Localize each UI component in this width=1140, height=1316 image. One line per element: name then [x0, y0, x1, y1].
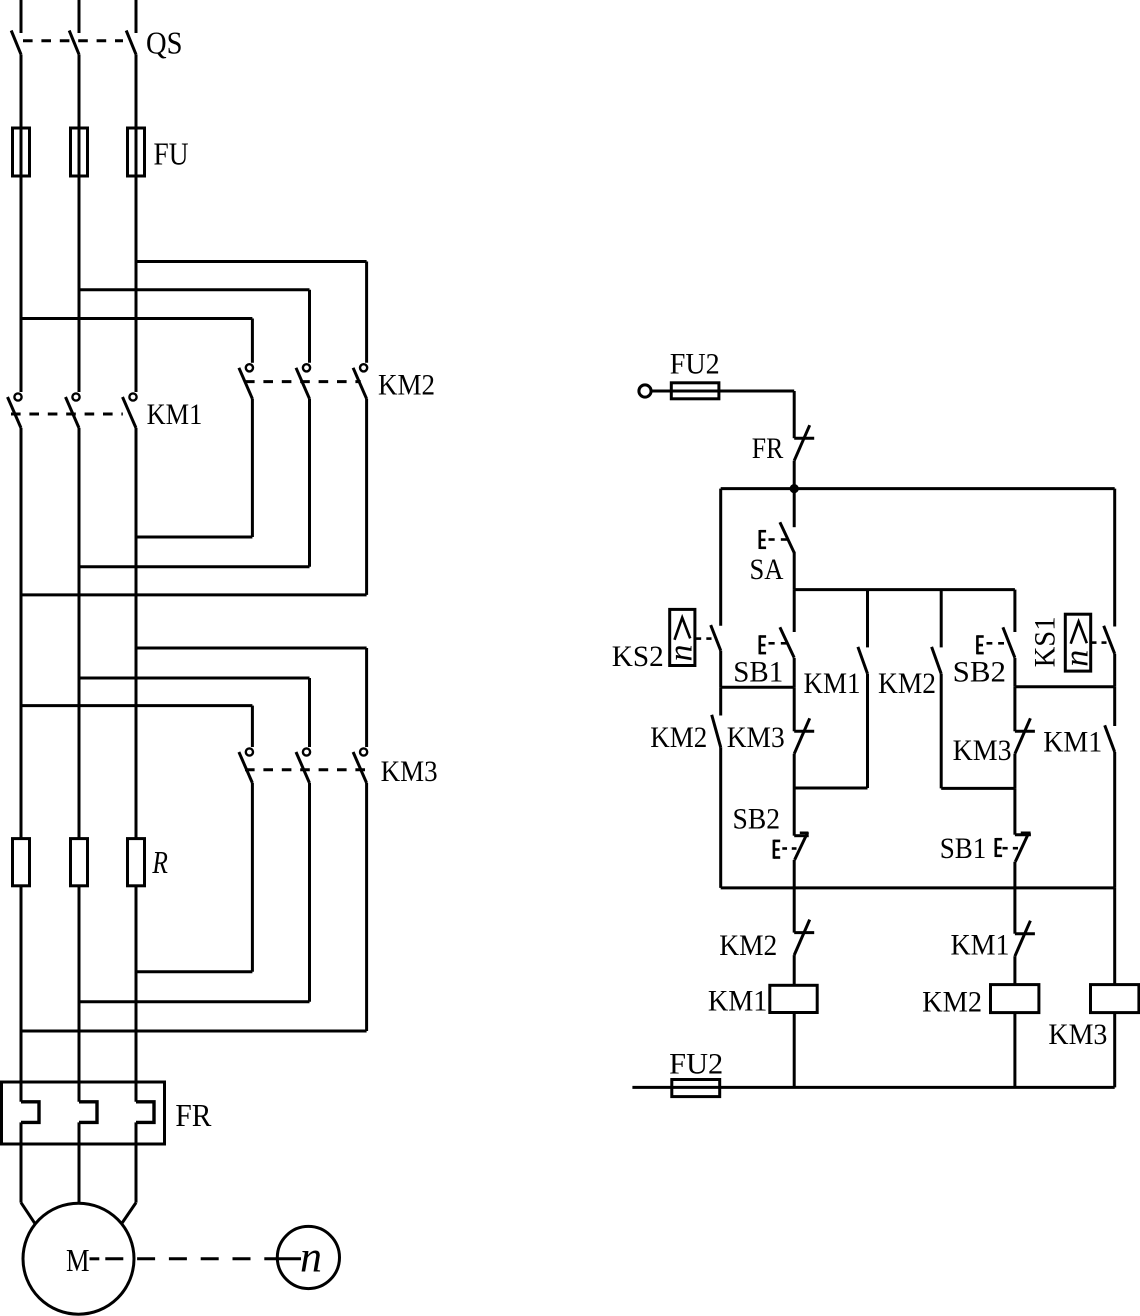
- svg-text:SB2: SB2: [953, 656, 1006, 689]
- svg-text:n: n: [663, 645, 700, 662]
- svg-text:KS2: KS2: [612, 640, 664, 673]
- svg-text:KM3: KM3: [953, 734, 1012, 767]
- svg-text:KS1: KS1: [1029, 616, 1062, 667]
- svg-text:KM1: KM1: [147, 398, 203, 431]
- svg-text:KM3: KM3: [727, 721, 785, 754]
- svg-text:KM1: KM1: [1043, 726, 1102, 759]
- svg-text:KM3: KM3: [1048, 1018, 1107, 1051]
- svg-text:SB2: SB2: [733, 802, 781, 835]
- svg-text:FU2: FU2: [670, 347, 720, 380]
- svg-text:KM2: KM2: [378, 369, 435, 402]
- svg-text:M: M: [66, 1242, 90, 1278]
- svg-text:FU: FU: [154, 135, 189, 171]
- svg-text:KM1: KM1: [708, 985, 768, 1018]
- svg-text:n: n: [1059, 650, 1096, 667]
- svg-text:KM1: KM1: [804, 667, 861, 700]
- svg-text:R: R: [152, 844, 169, 880]
- svg-text:SA: SA: [750, 553, 784, 586]
- svg-text:FR: FR: [752, 432, 784, 465]
- svg-text:KM2: KM2: [922, 986, 982, 1019]
- svg-text:KM2: KM2: [878, 667, 936, 700]
- svg-text:KM2: KM2: [650, 721, 707, 754]
- svg-text:SB1: SB1: [940, 832, 987, 865]
- svg-text:KM2: KM2: [719, 929, 777, 962]
- svg-text:KM1: KM1: [951, 929, 1010, 962]
- svg-text:KM3: KM3: [381, 755, 438, 788]
- svg-text:QS: QS: [146, 25, 183, 61]
- svg-text:SB1: SB1: [733, 656, 783, 689]
- svg-text:FU2: FU2: [669, 1047, 723, 1080]
- svg-text:n: n: [300, 1233, 322, 1282]
- svg-text:FR: FR: [175, 1097, 212, 1133]
